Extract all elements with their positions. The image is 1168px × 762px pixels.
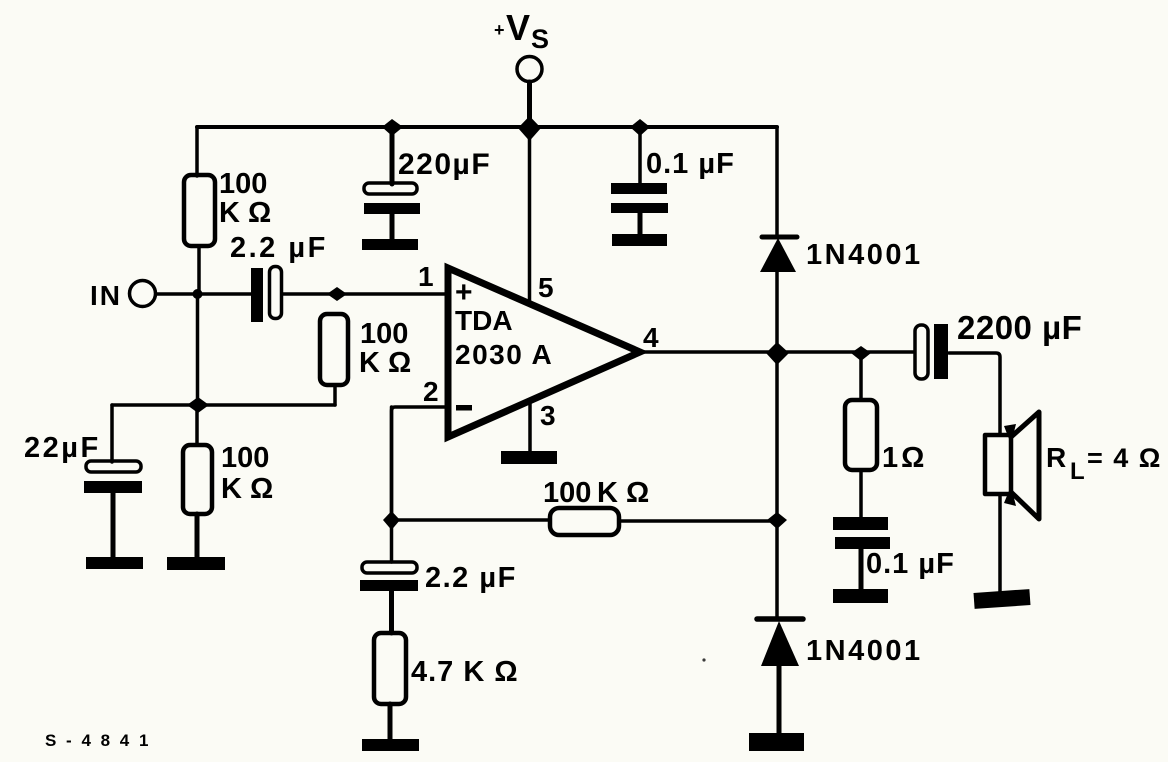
capacitor C2 0.1uF <box>611 127 735 246</box>
node junction dot IN column <box>193 289 203 299</box>
wire pin2 <box>392 407 449 520</box>
svg-text:2.2 µF: 2.2 µF <box>425 562 517 594</box>
wire feedback left vertical <box>390 407 394 520</box>
node junction Boucherot <box>851 346 871 361</box>
wire pin5 from rail <box>528 127 532 301</box>
wire pin3 ground <box>528 404 532 452</box>
resistor R6 100K <box>167 405 273 570</box>
node junction rail C1 <box>382 119 403 136</box>
node +Vs label <box>494 7 549 54</box>
wire R5 to C5 <box>859 470 863 518</box>
wire down to C7 <box>110 405 114 462</box>
capacitor C3 2.2uF input <box>230 232 328 322</box>
resistor R4 4.7K <box>374 633 406 704</box>
wire rail down to R1 <box>195 127 199 176</box>
diode D1 1N4001 <box>760 237 923 272</box>
svg-text:S: S <box>531 24 549 54</box>
terminal +Vs circle <box>517 57 542 82</box>
node junction feedback left <box>383 511 400 530</box>
resistor R5 1 ohm <box>845 400 877 470</box>
wire C6 to speaker <box>949 353 1000 435</box>
node junction 22uF <box>187 397 209 413</box>
svg-text:22µF: 22µF <box>24 432 101 464</box>
svg-text:K Ω: K Ω <box>219 197 271 229</box>
svg-text:5: 5 <box>538 272 554 303</box>
ink speck <box>702 658 705 661</box>
wire D2 to ground <box>777 666 782 736</box>
svg-text:100: 100 <box>221 442 269 474</box>
wire R2 bottom <box>333 385 337 405</box>
ground D2 <box>749 733 804 751</box>
svg-text:1N4001: 1N4001 <box>806 239 923 271</box>
svg-text:S - 4 8 4 1: S - 4 8 4 1 <box>45 731 151 750</box>
wire feedback to R3 <box>392 518 551 522</box>
wire R3 to output vertical <box>619 519 777 523</box>
capacitor C7 22uF <box>24 432 143 569</box>
wire C3 to pin1 <box>282 292 448 296</box>
svg-text:IN: IN <box>90 280 122 311</box>
ground pin3 <box>501 451 557 464</box>
svg-text:TDA: TDA <box>455 305 513 336</box>
resistor R3 100K feedback <box>550 508 619 535</box>
wire D1 to output node <box>775 272 779 353</box>
ground speaker <box>974 589 1031 609</box>
wire C4 to R4 <box>389 591 394 633</box>
svg-text:= 4 Ω: = 4 Ω <box>1087 443 1162 473</box>
node junction rail +Vs <box>518 116 541 141</box>
wire Boucherot down <box>859 353 863 400</box>
svg-text:3: 3 <box>540 400 556 431</box>
capacitor C1 220uF <box>362 127 491 250</box>
diode D2 1N4001 <box>757 619 923 667</box>
svg-text:K Ω: K Ω <box>359 347 411 379</box>
capacitor C4 2.2uF feedback <box>360 520 517 594</box>
svg-text:4: 4 <box>643 322 659 353</box>
ground R4 <box>362 739 419 751</box>
svg-text:L: L <box>1070 458 1085 485</box>
wire IN to C3 <box>156 292 251 296</box>
svg-text:R: R <box>1046 442 1066 473</box>
svg-text:1N4001: 1N4001 <box>806 635 923 667</box>
wire main vertical right <box>775 127 779 236</box>
wire feedback right to D2 <box>775 520 779 619</box>
wire output <box>642 350 914 354</box>
wire top supply rail <box>197 125 777 129</box>
svg-text:2.2 µF: 2.2 µF <box>230 232 328 264</box>
resistor R1 100K <box>184 175 215 246</box>
wire IN node down <box>196 294 200 405</box>
speaker LS <box>985 412 1039 519</box>
svg-text:K Ω: K Ω <box>221 473 273 505</box>
svg-text:K Ω: K Ω <box>597 477 649 509</box>
svg-text:2200 µF: 2200 µF <box>957 309 1082 346</box>
svg-text:2: 2 <box>423 376 439 407</box>
node junction output <box>766 342 789 365</box>
svg-text:2030 A: 2030 A <box>455 339 553 370</box>
svg-text:V: V <box>506 7 530 48</box>
capacitor C6 2200uF <box>915 309 1082 379</box>
svg-text:0.1 µF: 0.1 µF <box>646 148 735 180</box>
svg-text:220µF: 220µF <box>398 148 491 181</box>
svg-text:100: 100 <box>360 318 408 350</box>
wire R1 to IN node <box>197 246 201 294</box>
svg-text:100: 100 <box>543 477 591 509</box>
svg-text:100: 100 <box>219 168 267 200</box>
wire +Vs stem <box>527 82 532 127</box>
terminal IN circle <box>130 281 156 307</box>
wire speaker to ground <box>998 494 1002 592</box>
wire R4 to ground <box>388 704 393 740</box>
capacitor C5 0.1uF <box>833 517 955 603</box>
svg-text:1Ω: 1Ω <box>882 442 927 474</box>
wire output node down to feedback <box>775 353 779 520</box>
wire lower-left horizontal <box>112 403 335 407</box>
resistor R2 100K <box>320 314 348 385</box>
op-amp U1 TDA2030A <box>448 268 640 437</box>
node junction input <box>327 287 347 301</box>
svg-text:0.1 µF: 0.1 µF <box>866 548 955 580</box>
node junction feedback right <box>767 512 787 529</box>
svg-text:4.7 K Ω: 4.7 K Ω <box>411 656 519 688</box>
node junction rail C2 <box>630 119 650 136</box>
svg-text:+: + <box>494 20 505 40</box>
svg-text:1: 1 <box>418 261 434 292</box>
